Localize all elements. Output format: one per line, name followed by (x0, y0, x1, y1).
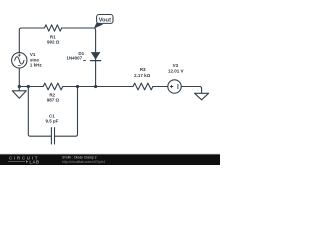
wire capacitor loop left (28, 87, 51, 137)
ground right (195, 93, 209, 100)
node junction loop-right (76, 85, 79, 88)
capacitor C1 (51, 128, 54, 145)
voltage source V1 (12, 53, 27, 68)
wire R3 to V3 (153, 86, 168, 88)
svg-text:2.17 kΩ: 2.17 kΩ (134, 73, 151, 78)
ground left (12, 87, 26, 99)
svg-text:Vout: Vout (99, 17, 112, 23)
diode D1 (91, 52, 101, 60)
svg-text:9.5 µF: 9.5 µF (45, 119, 58, 124)
wire V3 to right ground (181, 87, 201, 94)
wire capacitor loop right (55, 87, 78, 137)
svg-text:1 kHz: 1 kHz (30, 62, 43, 67)
node junction Vout-rail (94, 85, 97, 88)
svg-text:12.01 V: 12.01 V (168, 68, 184, 73)
node flag Vout (94, 15, 113, 29)
wire top rail right segment (62, 28, 96, 87)
wire rail middle segment (63, 86, 133, 88)
wire V1 bottom lead (18, 68, 20, 87)
node junction V1-ground (18, 85, 21, 88)
svg-text:1N4007: 1N4007 (66, 55, 82, 60)
resistor R1 (45, 25, 62, 31)
wire bottom rail (19, 86, 43, 88)
node junction loop-left (27, 85, 30, 88)
svg-text:V1: V1 (30, 52, 36, 57)
voltage source V3 (168, 80, 181, 93)
wire top rail left segment (19, 28, 44, 53)
svg-text:992 Ω: 992 Ω (47, 40, 60, 45)
svg-text:http://circuitlab.com/c57lyrb4: http://circuitlab.com/c57lyrb4 (62, 160, 105, 164)
watermark logo bolt (26, 160, 28, 163)
svg-text:LAB: LAB (29, 160, 39, 165)
resistor R3 (133, 83, 153, 90)
svg-text:R3: R3 (140, 67, 146, 72)
svg-text:987 Ω: 987 Ω (47, 97, 60, 102)
resistor R2 (43, 83, 63, 90)
watermark logo trace (8, 161, 25, 163)
watermark bar (0, 154, 220, 165)
